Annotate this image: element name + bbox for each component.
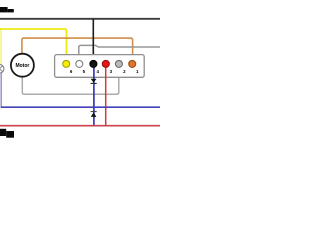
diode D1 (pointing down, below connector) <box>91 79 97 84</box>
watermark fragment top-left <box>0 7 14 12</box>
wire: black from top bus down to pin 4 <box>92 19 94 61</box>
pin 5 (white) <box>76 60 83 67</box>
wire: red from pin 3 down to red bus <box>105 67 107 126</box>
wire: gray from motor bottom to pin 2 <box>22 68 119 95</box>
wire: blue from pin 4 down to red bus <box>93 66 95 125</box>
pin 4 (black) <box>90 60 97 67</box>
connector J1 <box>55 55 145 78</box>
pin number 2 <box>123 69 126 74</box>
pin 6 (yellow) <box>63 60 70 67</box>
wire: yellow from lamp up and across to pin 6 <box>0 29 2 64</box>
wire: red bottom bus <box>0 125 160 127</box>
pin number 6 <box>70 69 73 74</box>
pin number 1 <box>136 69 139 74</box>
pin number 5 <box>83 69 86 74</box>
pin number 3 <box>110 69 113 74</box>
pin number 4 <box>96 69 99 74</box>
svg-text:Motor: Motor <box>15 63 29 69</box>
pin 2 (gray) <box>115 60 122 67</box>
wire: top supply bus <box>0 18 160 20</box>
watermark fragment bottom-left <box>0 129 14 138</box>
pin 1 (orange) <box>129 60 136 67</box>
motor M1 <box>11 54 34 77</box>
pin 3 (red) <box>102 60 109 67</box>
wire: blue bottom bus <box>1 106 160 108</box>
wire: orange from motor top across to pin 1 <box>22 38 133 61</box>
wire: purple from lamp down to blue bus <box>0 73 2 107</box>
wire: gray from right edge to pin 5 <box>79 45 160 60</box>
diode D2 (pointing up, below blue bus) <box>91 111 97 117</box>
lamp (circle with X, at left edge) <box>0 65 4 74</box>
